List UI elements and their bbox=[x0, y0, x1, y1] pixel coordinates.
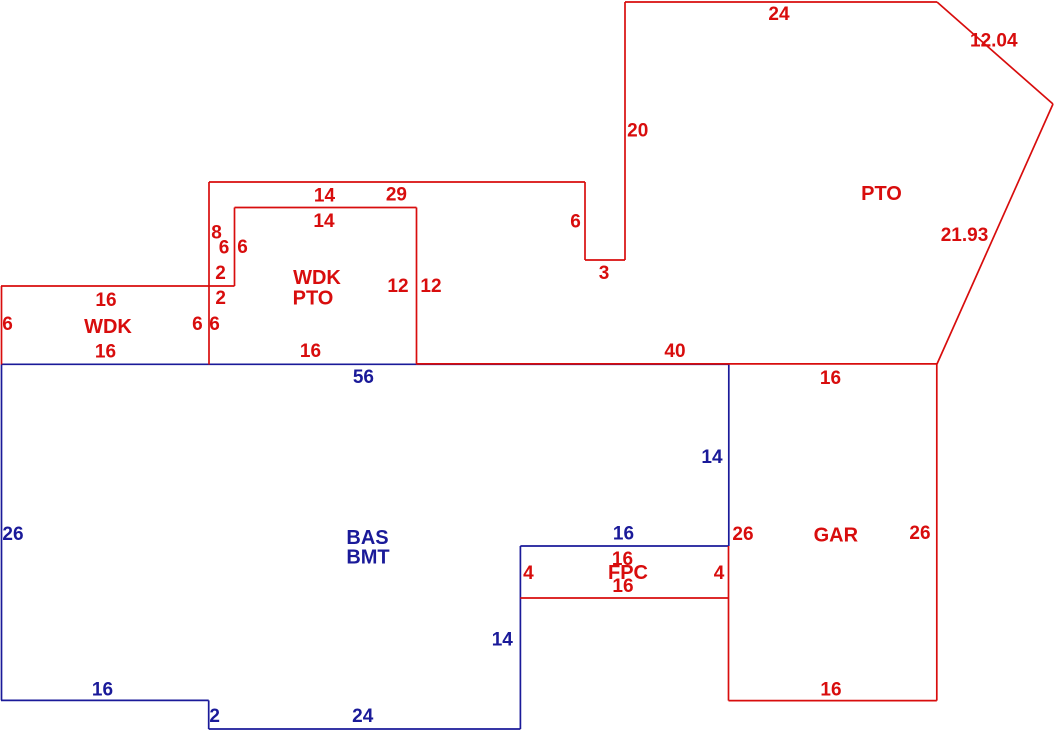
wall BAS-GAR shared bbox=[728, 365, 730, 547]
svg-text:BMT: BMT bbox=[346, 546, 389, 568]
wall WDKPTO left bbox=[234, 208, 236, 287]
svg-text:GAR: GAR bbox=[814, 524, 859, 546]
svg-text:40: 40 bbox=[664, 341, 685, 362]
svg-text:2: 2 bbox=[215, 288, 226, 309]
svg-text:2: 2 bbox=[209, 706, 220, 727]
svg-text:WDK: WDK bbox=[84, 316, 132, 338]
svg-text:20: 20 bbox=[627, 120, 648, 141]
wall BAS right / FPC left bbox=[519, 546, 521, 729]
wall PTO diagonal lower bbox=[937, 104, 1053, 364]
wall GAR right bbox=[936, 364, 938, 701]
svg-text:16: 16 bbox=[92, 680, 113, 701]
wall FPC top bbox=[520, 545, 728, 547]
svg-text:29: 29 bbox=[386, 184, 407, 205]
svg-text:26: 26 bbox=[909, 523, 930, 544]
svg-text:16: 16 bbox=[612, 576, 633, 597]
wall outer top-left bbox=[209, 181, 585, 183]
svg-text:PTO: PTO bbox=[293, 287, 334, 309]
svg-text:16: 16 bbox=[613, 523, 634, 544]
svg-text:4: 4 bbox=[523, 563, 534, 584]
wall WDKPTO top bbox=[235, 207, 417, 209]
svg-text:24: 24 bbox=[352, 706, 374, 727]
wall notch left bbox=[584, 182, 586, 260]
wall PTO bottom bbox=[416, 363, 937, 365]
svg-text:16: 16 bbox=[95, 341, 116, 362]
svg-text:26: 26 bbox=[2, 524, 23, 545]
wall WDK left bbox=[1, 286, 3, 365]
svg-text:6: 6 bbox=[570, 212, 581, 233]
wall PTO diagonal upper bbox=[937, 2, 1053, 104]
svg-text:2: 2 bbox=[215, 263, 226, 284]
svg-text:6: 6 bbox=[237, 237, 248, 258]
wall PTO top bbox=[625, 1, 937, 3]
wall BAS bottom left bbox=[1, 699, 209, 701]
svg-text:6: 6 bbox=[219, 237, 230, 258]
wall WDKPTO right bbox=[416, 208, 418, 365]
wall BAS top (blue) bbox=[1, 363, 729, 365]
wall FPC bottom bbox=[520, 597, 728, 599]
wall GAR left lower bbox=[728, 546, 730, 701]
svg-text:14: 14 bbox=[313, 211, 335, 232]
svg-text:6: 6 bbox=[192, 314, 203, 335]
wall notch bottom bbox=[585, 259, 625, 261]
svg-text:16: 16 bbox=[820, 679, 841, 700]
svg-text:6: 6 bbox=[209, 314, 220, 335]
svg-text:6: 6 bbox=[2, 314, 13, 335]
svg-text:16: 16 bbox=[300, 341, 321, 362]
wall PTO left bbox=[624, 2, 626, 260]
svg-text:12.04: 12.04 bbox=[970, 30, 1018, 51]
svg-text:PTO: PTO bbox=[861, 183, 902, 205]
wall WDK top bbox=[1, 285, 235, 287]
svg-text:24: 24 bbox=[768, 4, 790, 25]
svg-text:21.93: 21.93 bbox=[941, 225, 989, 246]
wall BAS bottom bbox=[209, 728, 521, 730]
svg-text:12: 12 bbox=[420, 276, 441, 297]
svg-text:16: 16 bbox=[820, 368, 841, 389]
wall BAS step bbox=[208, 700, 210, 729]
wall left of outer boundary bbox=[208, 182, 210, 365]
svg-text:12: 12 bbox=[387, 276, 408, 297]
svg-text:14: 14 bbox=[314, 185, 336, 206]
svg-text:14: 14 bbox=[701, 447, 723, 468]
svg-text:3: 3 bbox=[599, 263, 610, 284]
wall GAR bottom bbox=[729, 700, 937, 702]
svg-text:26: 26 bbox=[732, 524, 753, 545]
svg-text:4: 4 bbox=[714, 563, 725, 584]
wall BAS left bbox=[1, 365, 3, 701]
svg-text:14: 14 bbox=[492, 629, 514, 650]
svg-text:16: 16 bbox=[95, 290, 116, 311]
svg-text:WDK: WDK bbox=[293, 267, 341, 289]
svg-text:56: 56 bbox=[353, 367, 374, 388]
